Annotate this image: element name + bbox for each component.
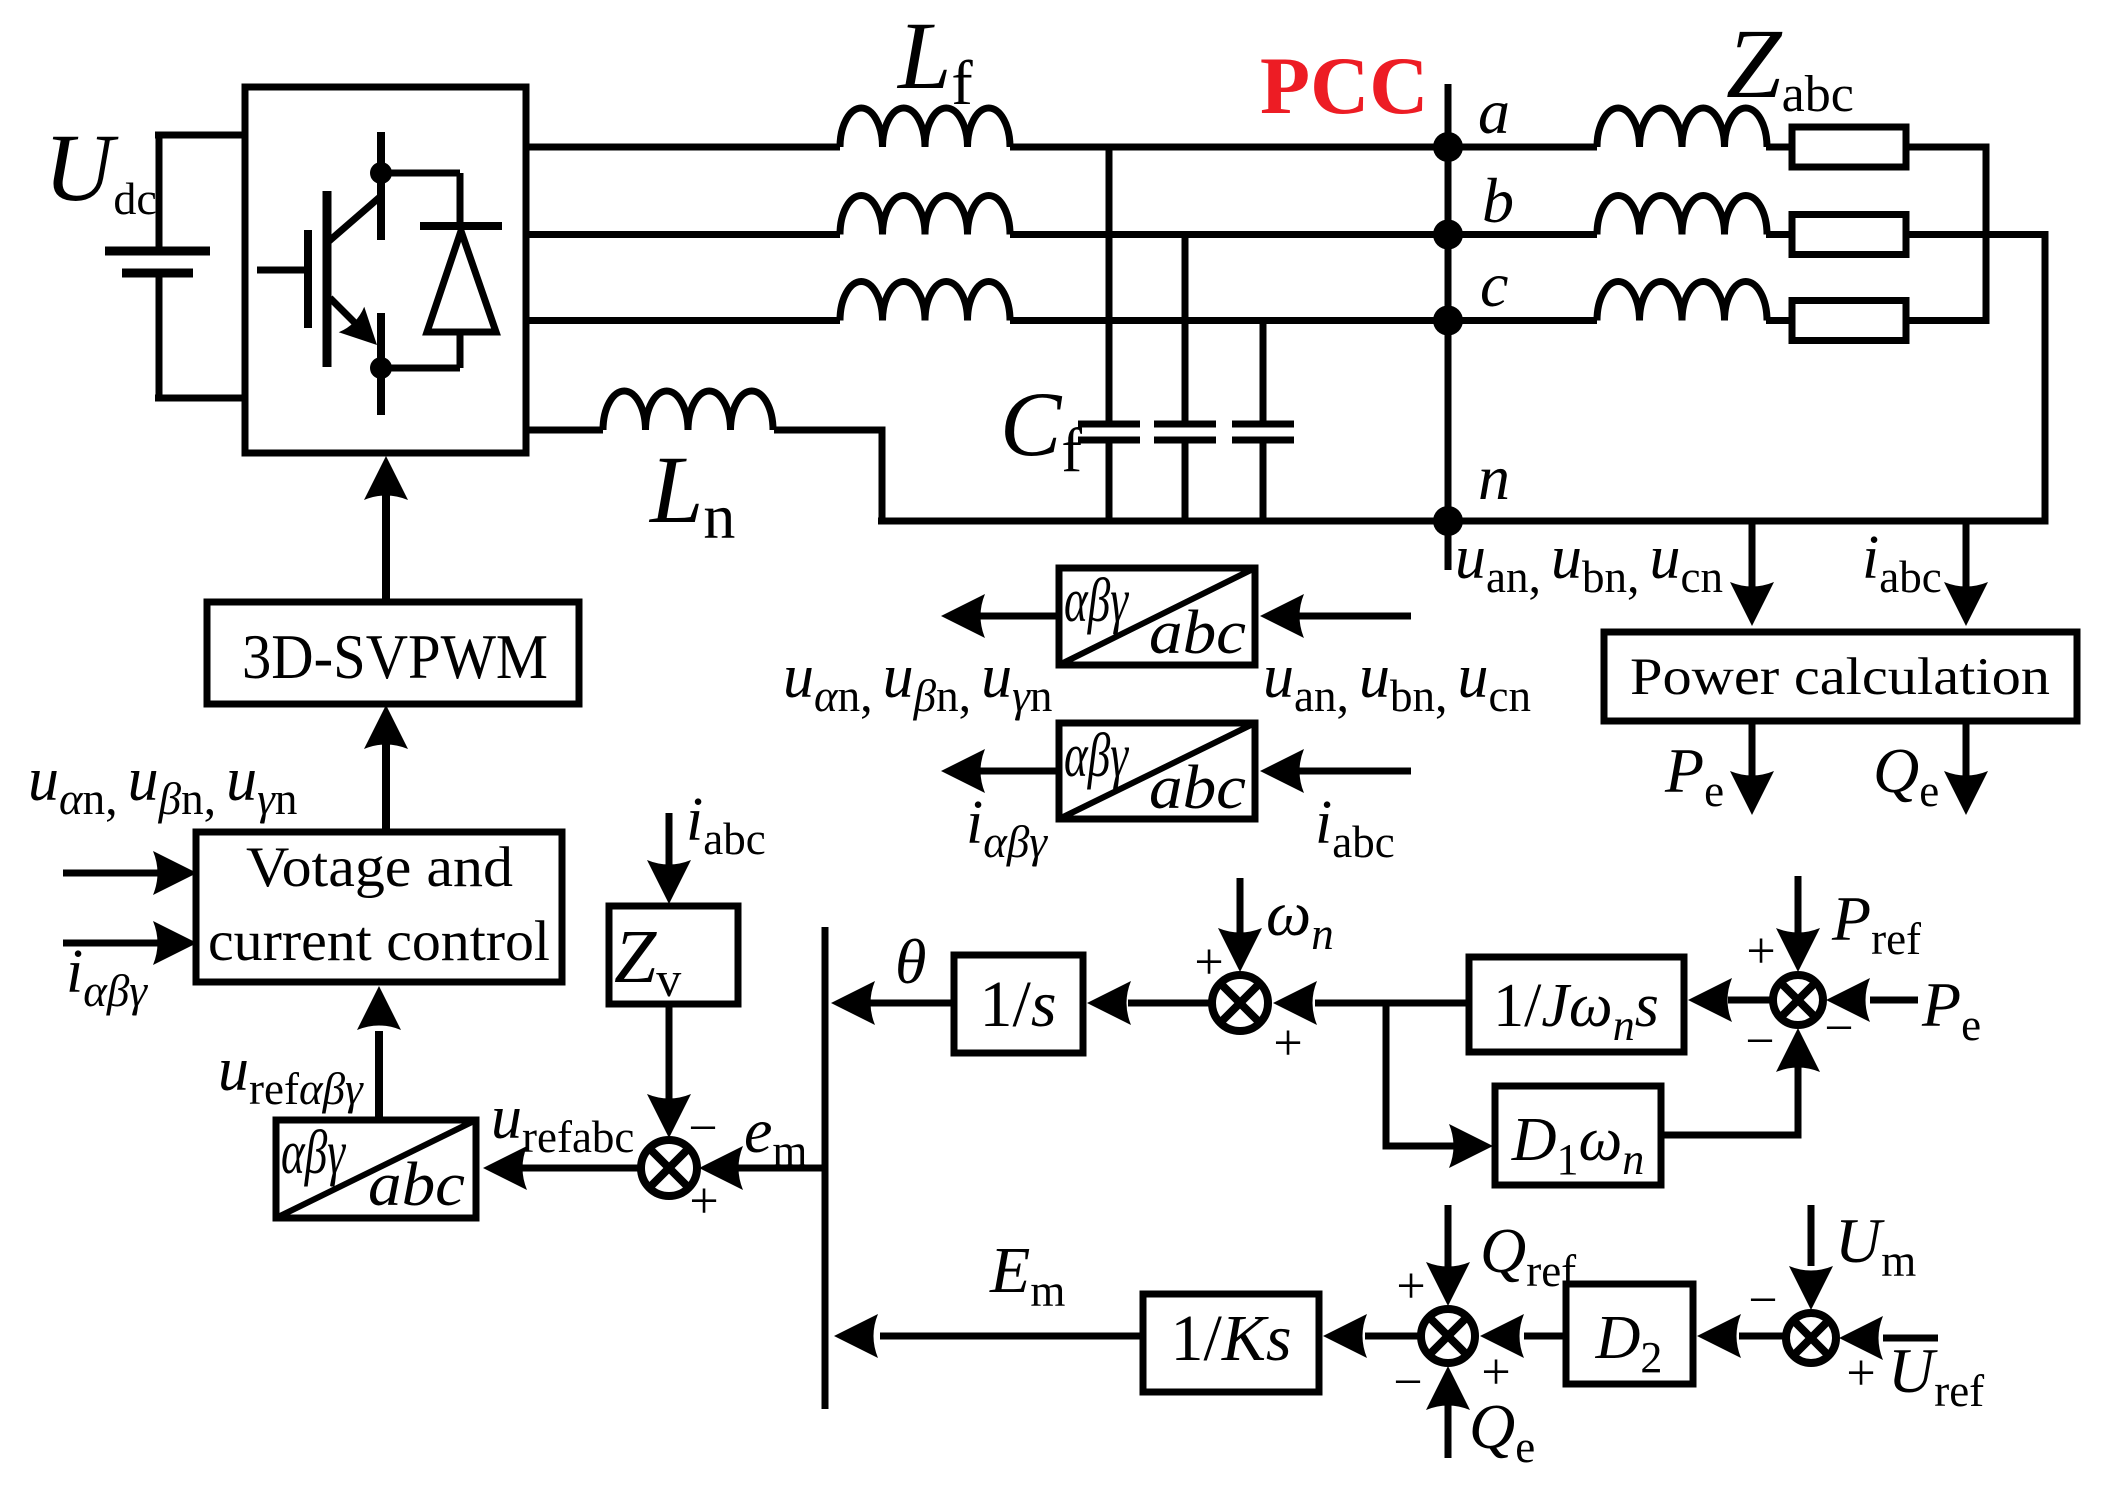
svg-text:+: + [1194, 934, 1223, 991]
svg-text:Power calculation: Power calculation [1630, 648, 2050, 706]
svg-text:+: + [1846, 1345, 1875, 1402]
svg-text:abc: abc [1149, 599, 1246, 667]
svg-text:n: n [1478, 442, 1510, 513]
svg-text:+: + [1481, 1344, 1510, 1401]
svg-text:current control: current control [208, 910, 550, 973]
svg-text:1/Jωns: 1/Jωns [1493, 972, 1659, 1050]
svg-text:abc: abc [368, 1151, 465, 1219]
svg-text:+: + [1273, 1015, 1302, 1072]
svg-text:+: + [689, 1173, 718, 1230]
svg-text:θ: θ [895, 926, 926, 997]
svg-text:−: − [688, 1100, 717, 1157]
svg-text:3D-SVPWM: 3D-SVPWM [242, 621, 548, 692]
svg-text:a: a [1478, 76, 1510, 147]
svg-text:abc: abc [1149, 754, 1246, 822]
svg-text:+: + [1746, 923, 1775, 980]
svg-text:αβγ: αβγ [1064, 567, 1129, 635]
svg-text:b: b [1482, 165, 1514, 236]
svg-text:−: − [1393, 1354, 1422, 1411]
svg-text:−: − [1748, 1272, 1777, 1329]
svg-text:c: c [1480, 249, 1508, 320]
svg-text:−: − [1824, 1000, 1853, 1057]
svg-text:1/Ks: 1/Ks [1170, 1302, 1291, 1375]
svg-text:αβγ: αβγ [1064, 722, 1129, 790]
svg-text:αβγ: αβγ [281, 1119, 346, 1187]
svg-text:−: − [1745, 1013, 1774, 1070]
svg-text:1/s: 1/s [979, 968, 1056, 1041]
svg-text:Votage and: Votage and [246, 836, 513, 899]
svg-text:+: + [1396, 1258, 1425, 1315]
svg-text:PCC: PCC [1260, 40, 1429, 131]
